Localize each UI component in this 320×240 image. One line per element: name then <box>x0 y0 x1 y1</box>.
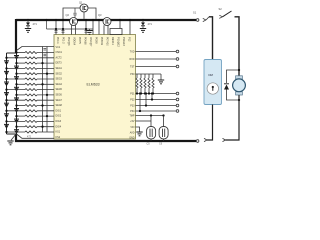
svg-text:DM: DM <box>209 73 214 77</box>
wire row 12 from LED chain <box>7 110 26 112</box>
wire row 2 to U1 <box>37 57 54 59</box>
svg-text:SEG8: SEG8 <box>56 104 63 107</box>
svg-text:471: 471 <box>33 22 38 26</box>
svg-text:472: 472 <box>27 136 32 139</box>
svg-text:DIG2: DIG2 <box>56 115 62 118</box>
pad y111 <box>176 110 179 113</box>
wire row 12 to U1 <box>37 110 54 112</box>
svg-text:SEG5: SEG5 <box>56 88 63 91</box>
wire vertical bus A <box>42 47 44 133</box>
wire row 14 to U1 <box>37 120 54 122</box>
svg-text:P00-1: P00-1 <box>56 37 59 44</box>
LED D15 (left chain) <box>4 124 9 128</box>
resistor R10 <box>25 99 37 101</box>
node bus x28 <box>27 19 29 21</box>
node bus x143 <box>142 19 144 21</box>
svg-text:DIG1: DIG1 <box>56 109 62 112</box>
svg-text:P01-2: P01-2 <box>62 37 65 44</box>
wire row 9 from LED chain <box>17 94 26 96</box>
node bus B row 4 <box>46 73 48 75</box>
svg-text:Q2: Q2 <box>66 13 70 17</box>
svg-text:P34: P34 <box>130 110 135 113</box>
wire stub x86 bus to U1 <box>85 20 87 35</box>
wire row 11 from LED chain <box>17 105 26 107</box>
svg-text:P04&6: P04&6 <box>84 37 87 45</box>
svg-text:P03*5: P03*5 <box>78 37 81 44</box>
wire row 5 to U1 <box>37 73 54 75</box>
resistor R1 <box>25 52 37 54</box>
node rail x63 <box>62 28 64 30</box>
svg-text:AVD: AVD <box>130 131 135 134</box>
pad y51.5 <box>176 50 179 53</box>
LED D8 (right chain) <box>14 130 19 134</box>
resistor R3 <box>25 62 37 64</box>
U1 right pin labels <box>129 50 135 139</box>
wire U1 right y111 <box>136 110 177 112</box>
wire U1 right y66.5 <box>136 66 177 68</box>
wire row 1 to U1 <box>37 52 54 54</box>
wire U1 right y115.5 <box>136 115 164 117</box>
svg-text:P30: P30 <box>130 73 135 76</box>
svg-text:RES11: RES11 <box>111 37 114 45</box>
capacitor C2 on Q1 loop <box>74 8 76 13</box>
svg-text:VIO: VIO <box>130 126 134 129</box>
wire vertical bus B <box>46 47 48 133</box>
wire top power bus <box>16 19 196 21</box>
node rail x56 <box>55 28 57 30</box>
LED D2 (right chain) <box>14 66 19 70</box>
resistor R24 vertical <box>152 74 154 78</box>
wire mid rail <box>47 28 94 30</box>
wire row 6 from LED chain <box>7 78 26 80</box>
node bus B row 12 <box>46 115 48 117</box>
resistor R13 <box>25 115 37 117</box>
svg-text:SEG7: SEG7 <box>56 99 63 102</box>
svg-text:P02@3: P02@3 <box>67 37 70 46</box>
wire row 1 from LED chain <box>17 52 26 54</box>
svg-text:KS2: KS2 <box>56 136 61 139</box>
resistor R22 vertical <box>144 74 146 78</box>
svg-text:+5V: +5V <box>130 120 135 123</box>
wire row 16 to U1 <box>37 131 54 133</box>
node bus B row 8 <box>46 94 48 96</box>
wire LED chain left column <box>6 53 8 134</box>
svg-text:SEG3: SEG3 <box>56 78 63 81</box>
capacitor below rail x86 <box>85 31 88 33</box>
wire row 4 to U1 <box>37 67 54 69</box>
resistor R11 <box>25 105 37 107</box>
wire Q1 loop <box>63 8 80 20</box>
wire row 9 to U1 <box>37 94 54 96</box>
ground for D18 <box>140 29 146 33</box>
resistor R7 <box>25 83 37 85</box>
pad y99.5 <box>176 98 179 101</box>
wire row 3 from LED chain <box>17 62 26 64</box>
capacitor C5 <box>147 127 156 139</box>
pad y105.5 <box>176 104 179 107</box>
svg-text:DET3: DET3 <box>56 62 63 65</box>
svg-text:VDD14: VDD14 <box>73 37 76 46</box>
wire row 10 to U1 <box>37 99 54 101</box>
svg-text:P33: P33 <box>130 104 135 107</box>
svg-text:P10@12: P10@12 <box>117 37 120 47</box>
contact arrow bottom meter <box>204 138 207 141</box>
svg-text:TST: TST <box>130 65 135 68</box>
node bus A row 10 <box>41 104 43 106</box>
wire row 6 to U1 <box>37 78 54 80</box>
wire row 2 from LED chain <box>7 57 26 59</box>
node bus A row 2 <box>41 62 43 64</box>
LED D7 (right chain) <box>14 119 19 123</box>
op-amp U1 main IC body <box>54 35 136 140</box>
svg-text:TMP: TMP <box>129 114 134 117</box>
svg-text:ELM633: ELM633 <box>87 83 100 87</box>
svg-text:SEG2: SEG2 <box>56 72 63 75</box>
ground mid rail <box>89 29 91 31</box>
LED D11 (left chain) <box>4 82 9 86</box>
wire row 15 from LED chain <box>17 126 26 128</box>
wire U1 right y121 <box>136 120 152 122</box>
U1 left pin labels <box>56 46 63 139</box>
svg-text:OSC1: OSC1 <box>56 51 63 54</box>
wire stub x56 bus to U1 <box>55 20 57 35</box>
svg-text:DIG3: DIG3 <box>56 120 62 123</box>
meter M1 box <box>204 60 222 105</box>
LED D1 (right chain) <box>14 56 19 60</box>
wire stub x99 bus to U1 <box>98 20 100 35</box>
resistor R5 <box>25 73 37 75</box>
wire row 11 to U1 <box>37 105 54 107</box>
motor M2 <box>236 76 243 79</box>
node bus A row 14 <box>41 126 43 128</box>
wire LED chain right column <box>16 53 18 134</box>
svg-text:DIG4: DIG4 <box>56 125 62 128</box>
resistor R4 <box>25 67 37 69</box>
wire row 5 from LED chain <box>17 73 26 75</box>
wire Q3 legs <box>104 25 108 34</box>
wire bottom ground bus <box>16 134 196 141</box>
node rail x86 <box>85 28 87 30</box>
svg-text:GND: GND <box>129 136 135 139</box>
wire left border <box>15 19 17 53</box>
wire row 14 from LED chain <box>7 120 26 122</box>
svg-text:ACT2: ACT2 <box>56 56 63 59</box>
svg-text:P07#10: P07#10 <box>106 37 109 46</box>
svg-text:VC1: VC1 <box>56 46 61 49</box>
svg-text:Q1: Q1 <box>79 1 83 5</box>
ground right cluster <box>160 74 162 80</box>
zener D17 <box>26 23 30 26</box>
LED D6 (right chain) <box>14 109 19 113</box>
capacitor C1b <box>43 54 46 56</box>
wire row 7 to U1 <box>37 83 54 85</box>
capacitor below rail x56 <box>55 31 58 33</box>
resistor R8 <box>25 89 37 91</box>
resistor network RN1 <box>110 29 122 35</box>
LED D5 (right chain) <box>14 98 19 102</box>
resistor R12 <box>25 110 37 112</box>
resistor R15 <box>25 126 37 128</box>
contact pad bottom bus end <box>196 140 199 143</box>
contact arrow bottom motor <box>223 138 226 141</box>
svg-text:P05!8: P05!8 <box>95 37 98 44</box>
wire stub x63 bus to U1 <box>62 20 64 35</box>
wire row 16 from LED chain <box>7 131 26 133</box>
LED D10 (left chain) <box>4 71 9 75</box>
pad y93.5 <box>176 92 179 95</box>
svg-text:OSC@7: OSC@7 <box>89 37 92 47</box>
wire row 4 from LED chain <box>7 67 26 69</box>
resistor R6 <box>25 78 37 80</box>
wire row 10 from LED chain <box>7 99 26 101</box>
ground for D17 <box>25 29 31 33</box>
wire U1 right y59 <box>136 58 177 60</box>
svg-text:SEG4: SEG4 <box>56 83 63 86</box>
LED D12 (left chain) <box>4 93 9 97</box>
resistor R20 vertical <box>136 74 138 78</box>
svg-text:S2: S2 <box>219 7 223 11</box>
wire chain bottom to U1 <box>17 134 55 138</box>
wire stub x130 bus to U1 <box>129 20 131 35</box>
LED D9 (left chain) <box>4 61 9 65</box>
svg-text:S1: S1 <box>193 11 197 15</box>
wire row 15 to U1 <box>37 126 54 128</box>
wire Q1 drain down <box>83 12 85 19</box>
wire U1 right y105.5 <box>136 105 177 107</box>
switch S1 <box>196 19 199 22</box>
wire row 13 to U1 <box>37 115 54 117</box>
svg-text:P12: P12 <box>128 37 131 42</box>
zener D18 <box>141 23 145 26</box>
transistor Q1 <box>80 4 88 12</box>
transistor Q2 <box>70 18 78 26</box>
LED D14 (left chain) <box>4 114 9 118</box>
wire U1 right y93.5 <box>136 93 177 95</box>
LED D13 (left chain) <box>4 103 9 107</box>
svg-text:SEG1: SEG1 <box>56 67 63 70</box>
svg-text:KS1: KS1 <box>56 131 61 134</box>
capacitor below rail x63 <box>62 31 65 33</box>
ground bottom-left <box>11 134 16 140</box>
resistor R23 vertical <box>148 74 150 78</box>
svg-text:P32: P32 <box>130 98 135 101</box>
svg-text:471: 471 <box>148 22 153 26</box>
pad y66.5 <box>176 65 179 68</box>
pad y59 <box>176 58 179 61</box>
wire Q2 legs <box>72 25 76 34</box>
wire U1 right y74 <box>136 73 162 75</box>
resistor R16 <box>25 131 37 133</box>
node bus A row 6 <box>41 83 43 85</box>
wire meter to bottom <box>207 105 213 141</box>
capacitor C1 <box>43 48 46 50</box>
wire Q1 source <box>88 8 96 19</box>
wire LED chain top connector <box>7 52 17 54</box>
svg-text:TXD: TXD <box>130 50 135 53</box>
svg-text:Q3: Q3 <box>98 13 102 17</box>
flyback diode D19 branch <box>227 70 240 83</box>
ground U1 right pin <box>136 127 140 132</box>
wire motor to bottom <box>226 95 240 140</box>
svg-text:SEG6: SEG6 <box>56 94 63 97</box>
wire stub x93 bus to U1 <box>92 20 94 35</box>
wire U1 right y99.5 <box>136 99 177 101</box>
meter dial <box>207 83 218 94</box>
resistor R9 <box>25 94 37 96</box>
U1 top pin labels <box>56 37 131 47</box>
wire row 8 to U1 <box>37 89 54 91</box>
resistor R21 vertical <box>140 74 142 78</box>
wire top-left row from border <box>17 47 55 51</box>
LED D3 (right chain) <box>14 77 19 81</box>
wire row 7 from LED chain <box>17 83 26 85</box>
wire U1 right y51.5 <box>136 51 177 53</box>
wire row 13 from LED chain <box>17 115 26 117</box>
svg-text:P11&13: P11&13 <box>122 37 125 46</box>
resistor R2 <box>25 57 37 59</box>
resistor R14 <box>25 120 37 122</box>
capacitor C6 <box>159 127 168 139</box>
wire row 3 to U1 <box>37 62 54 64</box>
svg-text:P31: P31 <box>130 92 135 95</box>
wire LED chain bottom connector <box>7 133 17 135</box>
svg-text:RXD: RXD <box>129 58 134 61</box>
wire row 8 from LED chain <box>7 89 26 91</box>
LED D4 (right chain) <box>14 87 19 91</box>
transistor Q3 <box>103 18 111 26</box>
svg-text:P06%9: P06%9 <box>100 37 103 46</box>
wire joins <box>140 94 152 112</box>
